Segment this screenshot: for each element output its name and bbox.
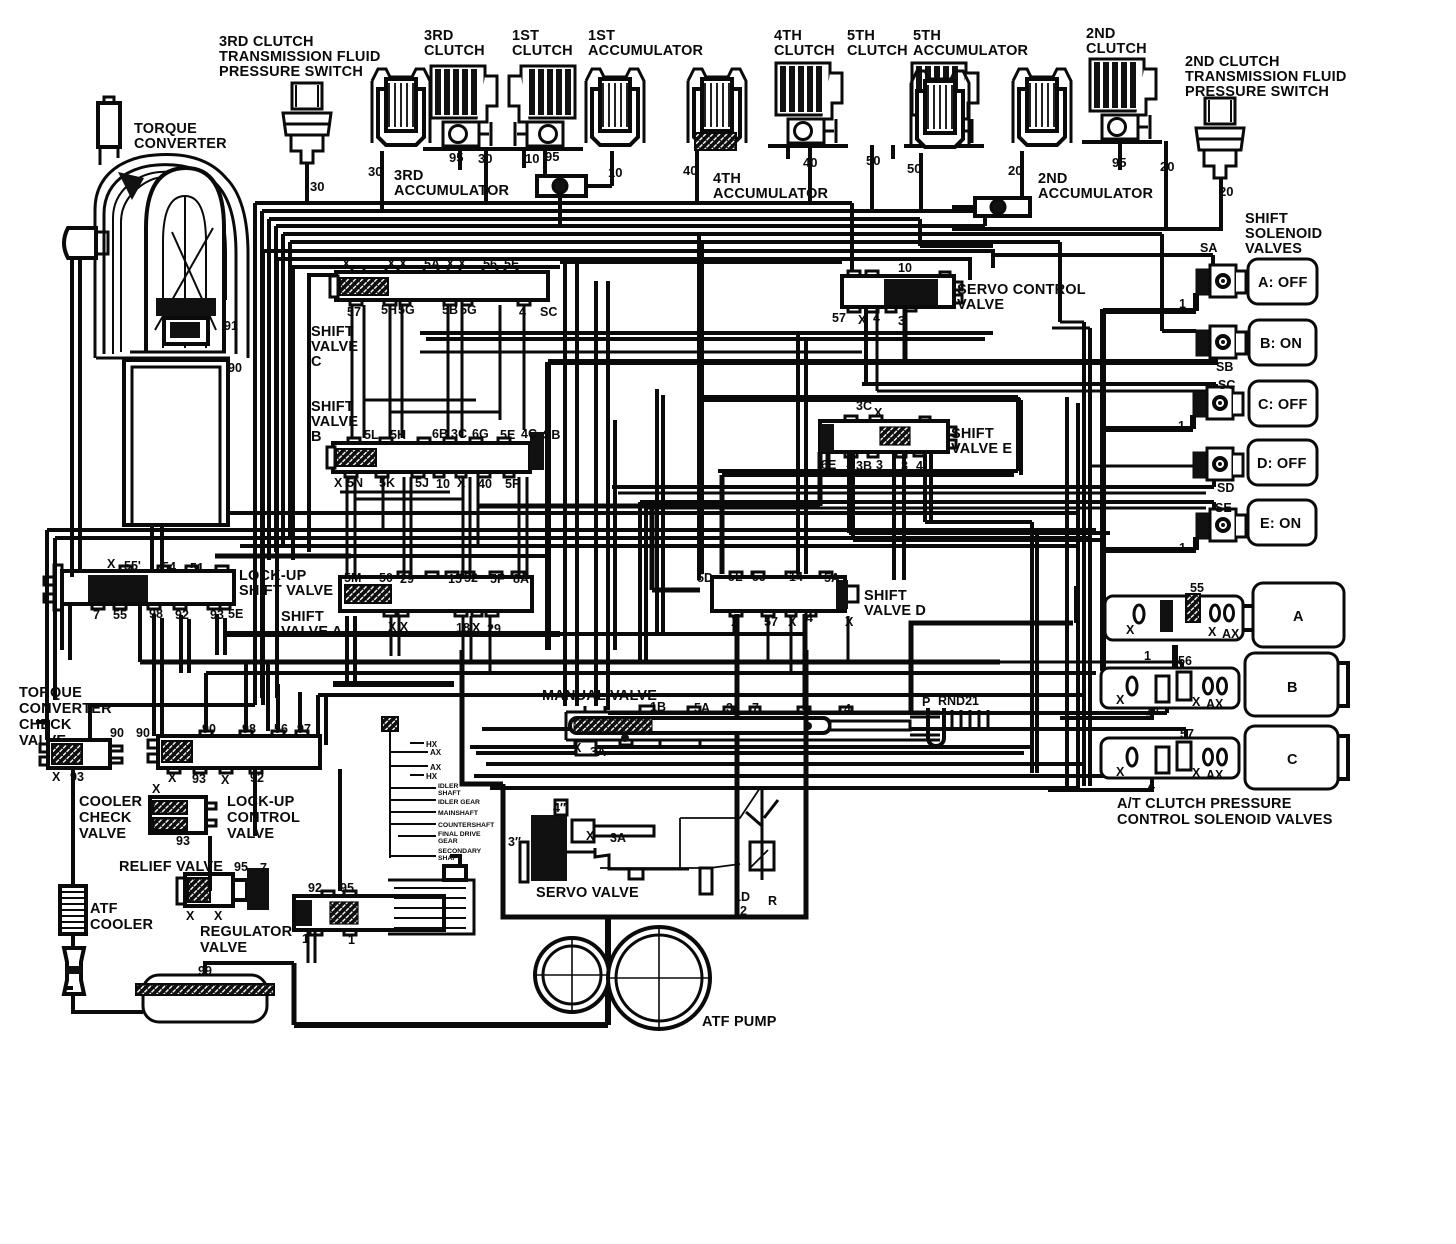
- svg-text:55: 55: [1190, 581, 1204, 595]
- label 4TH ACCUMULATOR: [713, 171, 829, 202]
- svg-text:3RD: 3RD: [394, 168, 424, 184]
- svg-text:5M: 5M: [344, 571, 361, 585]
- cooler check valve body: [150, 797, 216, 833]
- svg-text:7: 7: [260, 861, 267, 875]
- wire mid verticals group B: [652, 506, 700, 590]
- svg-text:29: 29: [487, 622, 501, 636]
- servo control valve body: [842, 271, 962, 312]
- wire ladder B-A jogs: [340, 492, 462, 499]
- svg-text:SHIFT VALVE: SHIFT VALVE: [239, 583, 333, 599]
- svg-text:AX: AX: [430, 763, 442, 772]
- svg-text:91: 91: [224, 319, 238, 333]
- svg-text:CLUTCH: CLUTCH: [424, 43, 485, 59]
- svg-text:3B: 3B: [856, 459, 872, 473]
- wire unit B bottom: [1060, 708, 1152, 718]
- svg-text:FINAL DRIVE: FINAL DRIVE: [438, 831, 481, 838]
- wire lockup control top feeds: [206, 662, 300, 731]
- svg-text:5E: 5E: [500, 428, 515, 442]
- svg-text:VALVE A: VALVE A: [281, 624, 343, 640]
- wire SD feed twin: [618, 492, 1206, 495]
- shift valve A body: [340, 572, 532, 616]
- svg-text:AX: AX: [1206, 697, 1224, 711]
- regulator valve labels: [302, 881, 355, 947]
- gear list hatch box: [382, 717, 398, 731]
- svg-text:X: X: [858, 313, 867, 327]
- shift valve E labels: [821, 399, 923, 473]
- svg-text:5A: 5A: [694, 701, 710, 715]
- torque converter turbine lines: [155, 196, 216, 348]
- svg-text:2ND: 2ND: [1086, 26, 1116, 42]
- wire D solenoid feed: [1090, 465, 1193, 468]
- svg-text:SOLENOID: SOLENOID: [1245, 226, 1322, 242]
- wire ladder valve C to B: [352, 305, 524, 438]
- svg-text:52: 52: [464, 571, 478, 585]
- ATF funnel: [64, 948, 84, 994]
- svg-text:AX: AX: [1222, 627, 1240, 641]
- wire top bus 3: [269, 219, 993, 246]
- label 2ND CLUTCH: [1086, 26, 1147, 57]
- wire unit B 56 riser: [1180, 662, 1184, 675]
- relief valve body: [177, 868, 269, 910]
- servo valve labels: [508, 801, 777, 918]
- strainer body: [136, 975, 274, 1022]
- svg-text:X: X: [731, 615, 740, 629]
- label 3RD ACCUMULATOR: [394, 168, 510, 199]
- torque converter top nub: [98, 97, 120, 165]
- wire right mid verticals: [1032, 397, 1078, 786]
- servo valve black body: [520, 788, 778, 894]
- wire 4th accum drop: [695, 151, 699, 203]
- svg-text:93: 93: [192, 772, 206, 786]
- wire check valve to cooler: [71, 768, 75, 886]
- svg-text:1: 1: [1179, 297, 1186, 311]
- svg-text:55': 55': [124, 559, 141, 573]
- label TORQUE CONVERTER: [134, 121, 227, 152]
- svg-text:ACCUMULATOR: ACCUMULATOR: [394, 183, 510, 199]
- wire cross band mid: [560, 260, 842, 264]
- wire mid verticals group A: [565, 262, 608, 710]
- wire manual out band 764: [486, 762, 1086, 766]
- svg-text:3″: 3″: [508, 835, 521, 849]
- svg-text:1ST: 1ST: [588, 28, 615, 44]
- relief valve labels: [186, 860, 267, 923]
- svg-text:D: OFF: D: OFF: [1257, 456, 1307, 472]
- wire valve block border outer: [263, 251, 993, 705]
- wire valve E 3B band: [849, 452, 1110, 540]
- svg-text:5E: 5E: [228, 607, 243, 621]
- wire 4th clutch drop: [788, 145, 810, 203]
- wire corner joins top right: [1052, 322, 1090, 328]
- svg-text:7: 7: [752, 701, 759, 715]
- svg-text:COOLER: COOLER: [90, 917, 154, 933]
- svg-text:1: 1: [1144, 649, 1151, 663]
- svg-text:5J: 5J: [415, 476, 429, 490]
- svg-text:95: 95: [545, 149, 559, 164]
- svg-text:C: C: [1287, 752, 1298, 768]
- svg-text:ACCUMULATOR: ACCUMULATOR: [588, 43, 704, 59]
- svg-text:93: 93: [176, 834, 190, 848]
- wire 5th accum drop: [919, 153, 923, 213]
- label 5TH CLUTCH: [847, 28, 908, 59]
- shift valve C body: [330, 267, 548, 305]
- svg-text:CLUTCH: CLUTCH: [1086, 41, 1147, 57]
- wire lockup ctl risers: [210, 769, 340, 891]
- svg-text:SA: SA: [1200, 241, 1217, 255]
- wire SE feed: [640, 502, 1214, 514]
- torque converter check valve body: [40, 740, 122, 768]
- wire valve E loop: [699, 397, 1021, 475]
- tc check valve labels: [52, 726, 150, 784]
- svg-text:5H: 5H: [390, 428, 406, 442]
- svg-text:SD: SD: [1217, 481, 1234, 495]
- svg-text:X: X: [107, 557, 116, 571]
- svg-text:ACCUMULATOR: ACCUMULATOR: [913, 43, 1029, 59]
- wire mid band bus 0: [160, 511, 1080, 515]
- wire right mid verticals 2: [1084, 322, 1090, 786]
- svg-text:MANUAL VALVE: MANUAL VALVE: [542, 688, 657, 704]
- manual enclosure thick frame: [462, 650, 503, 784]
- wire thick 6E drop to valve D: [720, 475, 725, 574]
- wire lockup feed thin ext: [351, 554, 545, 558]
- svg-text:X: X: [168, 771, 177, 785]
- svg-text:5B: 5B: [442, 303, 458, 317]
- svg-text:VALVE: VALVE: [200, 940, 247, 956]
- svg-text:1: 1: [1179, 541, 1186, 555]
- label MANUAL VALVE: [542, 688, 657, 704]
- wire thick low band A: [226, 631, 560, 637]
- svg-text:COUNTERSHAFT: COUNTERSHAFT: [438, 822, 495, 829]
- wire thick solenoid C supply: [1103, 415, 1193, 429]
- label SHIFT VALVE D: [864, 588, 926, 619]
- label ATF COOLER: [90, 901, 154, 933]
- label LOCK-UP SHIFT VALVE: [239, 568, 333, 599]
- wire thick low band 684: [333, 681, 454, 687]
- torque converter left nub mid: [64, 228, 108, 258]
- shift valve A labels: [344, 571, 529, 636]
- svg-text:SECONDARY: SECONDARY: [438, 848, 482, 855]
- solenoid A box A: OFF: [1248, 259, 1317, 304]
- svg-text:SB: SB: [543, 428, 560, 442]
- svg-text:5A: 5A: [424, 257, 440, 271]
- wire thick into valve E: [478, 452, 820, 506]
- svg-text:VALVE: VALVE: [227, 826, 274, 842]
- label SHIFT VALVE A: [281, 609, 343, 640]
- svg-text:4TH: 4TH: [713, 171, 741, 187]
- svg-text:AX: AX: [430, 748, 442, 757]
- svg-text:3RD CLUTCH: 3RD CLUTCH: [219, 34, 314, 50]
- svg-text:SHAFT: SHAFT: [438, 790, 462, 797]
- svg-text:8A: 8A: [513, 572, 529, 586]
- svg-text:3A: 3A: [590, 745, 606, 759]
- wire thick lockup feed: [215, 554, 351, 559]
- wire thick manual feed: [803, 614, 808, 710]
- svg-text:B: ON: B: ON: [1260, 336, 1302, 352]
- wire left drop bundle 5: [281, 234, 285, 544]
- svg-text:1ST: 1ST: [512, 28, 539, 44]
- svg-text:SC: SC: [540, 305, 557, 319]
- ATF cooler body: [60, 886, 86, 934]
- svg-text:TRANSMISSION FLUID: TRANSMISSION FLUID: [1185, 69, 1347, 85]
- svg-text:5K: 5K: [379, 476, 395, 490]
- svg-text:C: OFF: C: OFF: [1258, 397, 1308, 413]
- svg-text:A/T CLUTCH PRESSURE: A/T CLUTCH PRESSURE: [1117, 796, 1292, 812]
- wire valve block border 4: [309, 275, 336, 552]
- 4th accum hatched piston: [695, 133, 736, 150]
- svg-text:30: 30: [310, 179, 324, 194]
- svg-text:SHAFT: SHAFT: [438, 855, 462, 862]
- wire SE corner drops: [640, 502, 646, 660]
- reservoir rect inner: [132, 367, 220, 525]
- wire 1st accum drop: [558, 196, 562, 226]
- svg-text:4″: 4″: [553, 801, 566, 815]
- svg-text:X: X: [221, 773, 230, 787]
- svg-text:LOCK-UP: LOCK-UP: [239, 568, 307, 584]
- svg-text:57: 57: [832, 311, 846, 325]
- svg-text:29: 29: [400, 572, 414, 586]
- box C: [1245, 726, 1338, 789]
- wire regulator drops: [308, 932, 315, 963]
- label 1ST ACCUMULATOR: [588, 28, 704, 59]
- wire SD feed: [612, 476, 1214, 487]
- AT unit A labels: [1126, 581, 1240, 663]
- svg-text:56: 56: [1178, 654, 1192, 668]
- svg-text:RND21: RND21: [938, 694, 979, 708]
- wire left drop bundle 2: [260, 211, 264, 698]
- wire ladder C-B jogs: [364, 400, 500, 412]
- svg-text:3: 3: [901, 459, 908, 473]
- svg-text:57: 57: [1180, 727, 1194, 741]
- svg-text:PRESSURE SWITCH: PRESSURE SWITCH: [219, 64, 363, 80]
- svg-text:X: X: [1126, 623, 1135, 637]
- svg-text:5G: 5G: [460, 303, 477, 317]
- wire unit C bottom: [1048, 778, 1152, 790]
- 1st clutch symbol (mirrored): [503, 66, 583, 149]
- solenoid B symbol: [1196, 326, 1246, 358]
- wire valve block border 2: [277, 259, 970, 698]
- svg-text:X X: X X: [446, 257, 467, 271]
- reservoir rect outer: [124, 360, 228, 525]
- svg-text:SE: SE: [1215, 501, 1232, 515]
- svg-text:GEAR: GEAR: [438, 838, 458, 845]
- label REGULATOR VALVE: [200, 924, 293, 956]
- svg-text:5L: 5L: [728, 570, 743, 584]
- svg-text:B: B: [1287, 680, 1298, 696]
- svg-text:CLUTCH: CLUTCH: [847, 43, 908, 59]
- svg-text:SHIFT: SHIFT: [311, 399, 354, 415]
- svg-text:REGULATOR: REGULATOR: [200, 924, 293, 940]
- servo enclosure thick frame: [503, 650, 806, 917]
- 4th accumulator symbol: [688, 69, 746, 145]
- svg-text:X X: X X: [387, 257, 408, 271]
- svg-text:14: 14: [789, 570, 803, 584]
- wire 1st clutch ports: [524, 148, 545, 176]
- svg-text:2ND: 2ND: [1038, 171, 1068, 187]
- wire lockup left drop: [62, 604, 70, 660]
- wire unit C 4 band: [474, 771, 1162, 776]
- 4th clutch symbol: [768, 63, 848, 146]
- wire manual out band 753: [476, 751, 1024, 755]
- svg-text:IDLER GEAR: IDLER GEAR: [438, 799, 480, 806]
- svg-text:1: 1: [1178, 419, 1185, 433]
- svg-text:X: X: [1192, 695, 1201, 709]
- svg-text:50: 50: [379, 571, 393, 585]
- svg-text:ACCUMULATOR: ACCUMULATOR: [1038, 186, 1154, 202]
- svg-text:4: 4: [806, 611, 813, 625]
- wire valve E port drops: [894, 452, 1032, 580]
- svg-text:40: 40: [478, 477, 492, 491]
- 2nd clutch pressure switch symbol: [1196, 98, 1244, 178]
- wire low band 695: [318, 693, 1086, 697]
- svg-text:A: A: [1293, 609, 1304, 625]
- svg-text:4TH: 4TH: [774, 28, 802, 44]
- lock-up control valve body: [148, 731, 320, 773]
- shift valve D body: [712, 572, 858, 616]
- wire 3rd clutch ports: [460, 148, 486, 203]
- svg-text:5A: 5A: [824, 571, 840, 585]
- 3rd clutch symbol: [423, 66, 503, 149]
- svg-text:COOLER: COOLER: [79, 794, 143, 810]
- svg-text:VALVE D: VALVE D: [864, 603, 926, 619]
- wire 2nd accum drop: [1020, 151, 1024, 198]
- wire unit C 57 band: [482, 729, 1186, 738]
- svg-text:X: X: [1116, 693, 1125, 707]
- label SERVO CONTROL VALVE: [957, 282, 1086, 313]
- svg-text:55: 55: [113, 608, 127, 622]
- solenoid tags: [1178, 241, 1235, 555]
- 5th clutch symbol (mirrored): [904, 63, 984, 146]
- svg-text:VALVE E: VALVE E: [951, 441, 1012, 457]
- label 3RD CLUTCH TRANSMISSION FLUID PRESSURE SWITCH: [219, 34, 381, 80]
- svg-text:90: 90: [228, 361, 242, 375]
- svg-text:CONTROL: CONTROL: [227, 810, 300, 826]
- torque converter bell outer: [95, 154, 248, 358]
- svg-text:SC: SC: [1218, 378, 1235, 392]
- label 2ND CLUTCH TRANSMISSION FLUID PRESSURE SWITCH: [1185, 54, 1347, 100]
- svg-text:56: 56: [483, 257, 497, 271]
- torque converter labels 91 94: [130, 319, 242, 388]
- svg-text:X: X: [152, 782, 161, 796]
- wire loop2 left to bus: [952, 207, 985, 226]
- svg-text:CHECK: CHECK: [79, 810, 132, 826]
- solenoid D symbol: [1193, 448, 1243, 480]
- wire unit B 4sec band: [608, 708, 1167, 713]
- svg-text:CLUTCH: CLUTCH: [512, 43, 573, 59]
- svg-text:X: X: [342, 257, 351, 271]
- svg-text:95: 95: [340, 881, 354, 895]
- svg-text:15: 15: [448, 572, 462, 586]
- svg-text:E: ON: E: ON: [1260, 516, 1301, 532]
- solenoid E box E: ON: [1248, 500, 1316, 545]
- manual valve 3A port box: [576, 741, 596, 755]
- torque converter piston black: [156, 298, 216, 344]
- svg-text:VALVE: VALVE: [311, 414, 358, 430]
- svg-text:6G: 6G: [472, 427, 489, 441]
- servo control valve labels: [832, 261, 912, 328]
- svg-text:TORQUE: TORQUE: [134, 121, 197, 137]
- label SHIFT VALVE C: [311, 324, 358, 370]
- shift valve B body: [327, 432, 544, 477]
- svg-text:SHIFT: SHIFT: [281, 609, 324, 625]
- svg-text:X: X: [334, 476, 343, 490]
- wire left outer drops: [47, 530, 55, 740]
- label LOCK-UP CONTROL VALVE: [227, 794, 300, 842]
- label A/T CLUTCH PRESSURE CONTROL SOLENOID VALVES: [1117, 796, 1333, 828]
- label TORQUE CONVERTER CHECK VALVE: [19, 685, 112, 749]
- wire top bus 5: [283, 234, 1196, 331]
- torque converter inner dome: [146, 168, 224, 352]
- svg-text:5D: 5D: [697, 571, 713, 585]
- label COOLER CHECK VALVE: [79, 794, 143, 842]
- svg-text:VALVE: VALVE: [311, 339, 358, 355]
- svg-text:A: OFF: A: OFF: [1258, 275, 1308, 291]
- wire mid band bus 1: [47, 528, 1096, 532]
- svg-text:X: X: [1192, 766, 1201, 780]
- lock-up shift valve labels: [93, 557, 243, 622]
- svg-text:3: 3: [898, 314, 905, 328]
- svg-text:90: 90: [110, 726, 124, 740]
- lock-up control valve labels: [168, 722, 311, 787]
- svg-text:X: X: [846, 456, 855, 470]
- wire ladder valve B to A: [347, 477, 527, 577]
- svg-text:10: 10: [898, 261, 912, 275]
- manual valve body: [566, 706, 940, 746]
- svg-text:C: C: [311, 354, 322, 370]
- shift valve E body: [820, 416, 956, 457]
- svg-text:18: 18: [456, 621, 470, 635]
- svg-text:5H: 5H: [381, 303, 397, 317]
- svg-text:92: 92: [308, 881, 322, 895]
- svg-text:X: X: [52, 770, 61, 784]
- 3rd clutch pressure switch symbol: [283, 83, 331, 163]
- wire thick solenoid E supply: [1103, 537, 1196, 550]
- wire thick pump trunk: [294, 917, 608, 1025]
- label 1ST CLUTCH: [512, 28, 573, 59]
- wire valve E loop left drop: [699, 234, 702, 580]
- svg-text:ATF PUMP: ATF PUMP: [702, 1014, 777, 1030]
- wire tc bottom link: [96, 352, 230, 358]
- wire valve D bottom drops: [734, 616, 848, 673]
- wire thick solenoid A supply: [1103, 293, 1196, 311]
- wire left drop bundle 4: [274, 226, 278, 552]
- svg-text:IDLER: IDLER: [438, 783, 458, 790]
- lock-up shift valve body: [44, 565, 234, 610]
- wire 2nd switch drop and run left: [952, 178, 1221, 229]
- svg-text:SHIFT: SHIFT: [1245, 211, 1288, 227]
- svg-text:3: 3: [876, 458, 883, 472]
- solenoid A symbol: [1196, 265, 1246, 297]
- label 3RD CLUTCH: [424, 28, 485, 59]
- svg-text:R: R: [768, 894, 777, 908]
- wire thick unit A supply: [1103, 645, 1175, 671]
- wire mid band bus 3: [240, 544, 1080, 548]
- ATF pump large gear: [606, 925, 712, 1031]
- torque converter bell inner line: [104, 165, 236, 354]
- svg-text:3A: 3A: [610, 831, 626, 845]
- svg-text:HX: HX: [426, 740, 438, 749]
- wire valve block border 3: [293, 267, 560, 560]
- AT unit B labels: [1116, 654, 1224, 720]
- svg-text:SHIFT: SHIFT: [951, 426, 994, 442]
- AT unit C labels: [1116, 727, 1224, 793]
- wire cross band 352: [420, 351, 862, 354]
- svg-text:X X: X X: [388, 620, 409, 634]
- svg-text:B: B: [311, 429, 322, 445]
- wire thick low band A ext: [560, 632, 806, 636]
- wire valve A bottom drops: [391, 616, 490, 673]
- svg-text:CONVERTER: CONVERTER: [134, 136, 227, 152]
- label 5TH ACCUMULATOR: [913, 28, 1029, 59]
- cooler check valve labels: [152, 782, 190, 848]
